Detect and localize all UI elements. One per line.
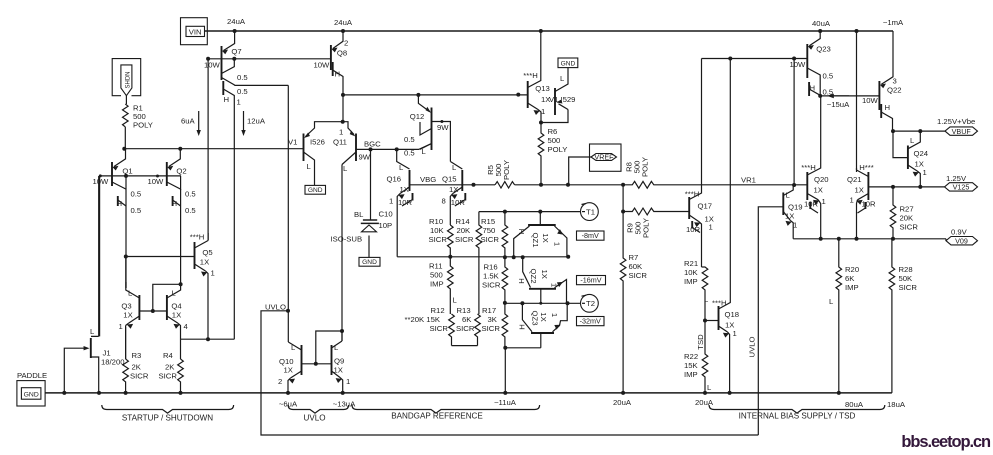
- svg-text:10W: 10W: [862, 96, 879, 105]
- wire: startup emitter row (R1 to V1 base): [124, 148, 303, 150]
- transistor Q4 (NPN 1X, diode-connected): [167, 284, 189, 339]
- wire: Q3/Q4 base row and tie to Q4 collector: [139, 310, 167, 312]
- wire: VREF tap: [569, 157, 591, 185]
- svg-text:24uA: 24uA: [334, 18, 353, 27]
- svg-text:R16: R16: [484, 263, 498, 272]
- resistor R5 500 POLY (horizontal): [495, 182, 515, 188]
- wire: row D (trim ladder bottom): [505, 347, 541, 349]
- wire: V09 row: [793, 238, 946, 240]
- svg-text:Q11: Q11: [333, 138, 347, 147]
- wire: Q5 base row: [126, 256, 195, 258]
- port VIN outer box: [181, 18, 208, 45]
- svg-text:Q4: Q4: [171, 302, 182, 311]
- wire: ~15uA line (Q23 collectors to Q22 base): [820, 95, 879, 97]
- resistor R14 20K SICR: [476, 212, 482, 314]
- wire: Q1/Q2 base row: [100, 175, 181, 177]
- svg-text:H: H: [518, 324, 527, 330]
- svg-text:VBG: VBG: [420, 175, 436, 184]
- ground GND box (I529 collector): [558, 58, 578, 68]
- svg-text:2: 2: [344, 39, 348, 48]
- annotation: 12uA arrow: [243, 111, 245, 131]
- resistor R20 6K IMP: [836, 239, 842, 393]
- resistor R12 15K SICR (**20K): [449, 314, 455, 346]
- svg-text:-32mV: -32mV: [580, 317, 601, 326]
- svg-text:ISO-SUB: ISO-SUB: [331, 235, 363, 244]
- svg-text:L: L: [291, 343, 296, 352]
- label: -32mV box: [577, 317, 605, 326]
- svg-text:QZ2: QZ2: [529, 269, 538, 284]
- wire: BGC row (Q11 base to Q12 collector): [356, 144, 432, 150]
- svg-text:1: 1: [793, 221, 797, 230]
- svg-text:L: L: [172, 289, 177, 298]
- svg-text:Q12: Q12: [410, 112, 425, 121]
- svg-text:R6: R6: [548, 127, 558, 136]
- wire: ladder bottom to ground rail: [504, 348, 506, 393]
- wire: Q17/Q18 collector top link to Q23 base: [702, 58, 808, 60]
- transistor Q9 (NPN 1X, diode tap): [332, 331, 351, 393]
- svg-text:10W: 10W: [314, 61, 331, 70]
- terminal T2: [581, 294, 599, 312]
- svg-text:**20K 15K: **20K 15K: [405, 315, 441, 324]
- svg-text:VREF: VREF: [594, 153, 614, 162]
- wire: R12/R13 bottom tie: [452, 345, 478, 347]
- wire: Q21 collector vertical (rail to Q21): [856, 31, 858, 170]
- node UVLO: [286, 309, 290, 313]
- svg-text:0.5: 0.5: [237, 87, 248, 96]
- svg-text:H: H: [810, 84, 816, 93]
- svg-text:L: L: [128, 289, 133, 298]
- svg-text:GND: GND: [362, 259, 377, 266]
- svg-text:R10: R10: [429, 217, 443, 226]
- svg-text:15K: 15K: [684, 361, 699, 370]
- zap transistor QZ3 (1X H, flipped): [518, 303, 568, 348]
- svg-text:6K: 6K: [845, 274, 855, 283]
- svg-text:SICR: SICR: [429, 235, 448, 244]
- svg-text:IMP: IMP: [430, 280, 444, 289]
- svg-text:H: H: [335, 70, 341, 79]
- wire: Q7/Q8 base row: [208, 58, 331, 60]
- svg-text:10K: 10K: [684, 268, 699, 277]
- resistor R27 20K SICR: [890, 187, 896, 240]
- svg-text:4: 4: [184, 322, 189, 331]
- svg-text:0.5: 0.5: [131, 206, 142, 215]
- wire: VREF line down to R9 row: [622, 185, 624, 212]
- wire: Q7 collector2 to UVLO branch top: [234, 84, 288, 86]
- svg-text:1X: 1X: [200, 258, 209, 267]
- svg-text:POLY: POLY: [641, 157, 650, 177]
- svg-text:J1: J1: [103, 349, 111, 358]
- svg-text:SICR: SICR: [159, 372, 178, 381]
- svg-text:6K: 6K: [462, 315, 472, 324]
- svg-text:BL: BL: [354, 210, 364, 219]
- resistor R17 3K SICR: [502, 303, 508, 348]
- resistor R6 500 POLY: [538, 123, 544, 185]
- svg-text:1: 1: [553, 242, 562, 246]
- svg-text:3: 3: [893, 77, 897, 86]
- svg-text:Q18: Q18: [725, 310, 740, 319]
- brace: INTERNAL BIAS SUPPLY / TSD: [709, 405, 885, 413]
- wire: SHDN to R1: [125, 96, 127, 104]
- svg-text:UVLO: UVLO: [748, 337, 757, 358]
- brace: BANDGAP REFERENCE: [352, 405, 540, 413]
- svg-text:20K: 20K: [457, 226, 472, 235]
- svg-text:UVLO: UVLO: [303, 414, 325, 423]
- svg-text:1X: 1X: [284, 366, 293, 375]
- svg-text:10W: 10W: [790, 60, 807, 69]
- svg-text:10R: 10R: [804, 200, 819, 209]
- svg-text:Q9: Q9: [334, 357, 344, 366]
- svg-text:Q17: Q17: [698, 202, 713, 211]
- svg-text:-16mV: -16mV: [580, 276, 601, 285]
- resistor R3 2K SICR: [125, 327, 127, 359]
- svg-text:R22: R22: [684, 352, 698, 361]
- svg-text:50K: 50K: [899, 274, 914, 283]
- svg-text:SICR: SICR: [430, 324, 449, 333]
- port VBUF flag: [945, 127, 978, 135]
- resistor R10 10K SICR: [447, 225, 453, 257]
- svg-text:750: 750: [483, 226, 496, 235]
- node: rail junction dots: [233, 29, 237, 33]
- wire: V125 row (Q21 base to flag): [868, 186, 944, 188]
- svg-text:T1: T1: [586, 208, 595, 217]
- transistor Q12 (PNP 9W dual collector): [404, 95, 450, 162]
- svg-text:L: L: [560, 74, 565, 83]
- svg-text:1X: 1X: [785, 212, 794, 221]
- svg-text:Q19: Q19: [788, 203, 803, 212]
- svg-text:1: 1: [850, 196, 854, 205]
- svg-text:R11: R11: [429, 262, 443, 271]
- svg-text:IMP: IMP: [684, 370, 698, 379]
- svg-text:GND: GND: [24, 392, 39, 399]
- svg-text:H***: H***: [859, 163, 874, 172]
- wire: Q1 base to J1 drain (left vertical): [99, 176, 101, 337]
- svg-text:SICR: SICR: [456, 324, 475, 333]
- wire: row B (Q16 emitter / R11 node): [397, 256, 568, 258]
- svg-text:SICR: SICR: [482, 281, 501, 290]
- wire: VBG row with R5: [410, 184, 496, 186]
- svg-text:60K: 60K: [629, 262, 644, 271]
- resistor R11 500 IMP: [447, 257, 453, 314]
- wire: UVLO feedback branch (down and across bottom): [261, 311, 758, 435]
- svg-text:VR1: VR1: [741, 176, 756, 185]
- svg-text:~1mA: ~1mA: [883, 18, 904, 27]
- ground GND box (V1 collector): [305, 185, 326, 194]
- transistor Q8 (PNP): [314, 31, 349, 95]
- svg-text:R21: R21: [684, 259, 698, 268]
- transistor Q19 (NPN 1X L): [783, 185, 802, 239]
- svg-text:20K: 20K: [900, 214, 915, 223]
- svg-text:10R: 10R: [398, 198, 413, 207]
- svg-text:1: 1: [541, 107, 545, 116]
- svg-text:2K: 2K: [165, 363, 175, 372]
- svg-text:12uA: 12uA: [247, 117, 266, 126]
- svg-text:Q20: Q20: [814, 175, 829, 184]
- transistor Q23 (PNP multi-collector 10W): [790, 31, 834, 97]
- svg-text:1.25V+Vbe: 1.25V+Vbe: [937, 117, 975, 126]
- svg-text:Q21: Q21: [847, 175, 862, 184]
- svg-text:10W: 10W: [204, 61, 221, 70]
- svg-text:L: L: [399, 163, 404, 172]
- transistor Q15 (NPN 8X 10R): [442, 162, 466, 226]
- svg-text:L: L: [829, 297, 834, 306]
- svg-text:~15uA: ~15uA: [827, 100, 850, 109]
- transistor Q1 (PNP multi-collector): [93, 149, 142, 288]
- transistor Q5 (NPN 1X): [190, 233, 215, 340]
- svg-text:1X: 1X: [334, 366, 343, 375]
- svg-text:1X: 1X: [172, 311, 181, 320]
- svg-text:2: 2: [278, 377, 282, 386]
- annotation: ~15uA arrow: [827, 94, 834, 99]
- svg-text:V1: V1: [288, 138, 297, 147]
- transistor Q7 (PNP multi-collector): [204, 31, 248, 339]
- svg-text:10P: 10P: [379, 221, 393, 230]
- svg-text:1: 1: [923, 168, 927, 177]
- svg-text:0.5: 0.5: [823, 72, 834, 81]
- svg-text:H: H: [224, 95, 230, 104]
- svg-text:QZ3: QZ3: [531, 311, 540, 326]
- svg-text:10W: 10W: [148, 177, 165, 186]
- svg-text:20uA: 20uA: [695, 398, 714, 407]
- svg-text:SICR: SICR: [130, 372, 149, 381]
- transistor V1 (PNP I526): [288, 122, 343, 186]
- svg-text:1: 1: [119, 322, 123, 331]
- svg-text:VIN: VIN: [189, 27, 202, 36]
- svg-text:POLY: POLY: [548, 145, 568, 154]
- svg-text:I526: I526: [310, 138, 325, 147]
- svg-text:H: H: [117, 199, 123, 208]
- svg-text:R4: R4: [163, 351, 174, 360]
- svg-text:Q13: Q13: [535, 84, 550, 93]
- transistor Q3 (NPN 1X): [119, 257, 140, 360]
- svg-text:9W: 9W: [359, 153, 371, 162]
- svg-text:10W: 10W: [93, 177, 110, 186]
- svg-text:SICR: SICR: [481, 235, 500, 244]
- svg-text:C10: C10: [379, 210, 393, 219]
- svg-text:***H: ***H: [801, 163, 816, 172]
- svg-text:R7: R7: [629, 253, 639, 262]
- svg-text:SICR: SICR: [482, 324, 501, 333]
- svg-text:8: 8: [442, 197, 446, 206]
- wire: row C (T2 row): [505, 302, 581, 304]
- svg-text:500: 500: [548, 136, 561, 145]
- brace: STARTUP / SHUTDOWN: [102, 405, 234, 413]
- svg-text:0.9V: 0.9V: [951, 228, 968, 237]
- svg-text:L: L: [422, 147, 427, 156]
- svg-text:BANDGAP REFERENCE: BANDGAP REFERENCE: [391, 412, 483, 421]
- svg-text:0.5: 0.5: [131, 190, 142, 199]
- port SHDN flag: [121, 65, 132, 96]
- transistor Q11 (PNP 9W): [333, 122, 371, 173]
- svg-text:6uA: 6uA: [181, 117, 196, 126]
- svg-text:10R: 10R: [451, 198, 466, 207]
- svg-text:0.5: 0.5: [185, 190, 196, 199]
- svg-text:INTERNAL BIAS SUPPLY / TSD: INTERNAL BIAS SUPPLY / TSD: [739, 412, 856, 421]
- svg-text:1X: 1X: [540, 269, 549, 278]
- svg-text:STARTUP / SHUTDOWN: STARTUP / SHUTDOWN: [122, 414, 213, 423]
- transistor Q16 (NPN 1X 10R): [387, 149, 413, 256]
- resistor R28 50K SICR: [889, 239, 895, 393]
- label: -16mV box: [577, 276, 606, 285]
- port PADDLE GND inner box: [21, 388, 41, 400]
- svg-text:***H: ***H: [712, 299, 727, 308]
- port VREF flag and outer box: [590, 144, 622, 171]
- svg-text:SICR: SICR: [455, 235, 474, 244]
- resistor R8 500 POLY (horizontal on VR1 line): [623, 181, 807, 188]
- svg-text:Q7: Q7: [231, 47, 241, 56]
- svg-text:Q15: Q15: [442, 175, 457, 184]
- svg-text:R20: R20: [845, 265, 859, 274]
- svg-text:3K: 3K: [488, 315, 498, 324]
- svg-text:1X: 1X: [400, 185, 409, 194]
- svg-text:1: 1: [237, 98, 241, 107]
- terminal T1: [581, 203, 599, 221]
- annotation: 6uA arrow left: [198, 111, 200, 131]
- transistor Q18 (NPN 1X L***H): [704, 59, 739, 393]
- svg-text:20uA: 20uA: [613, 398, 632, 407]
- svg-text:1X: 1X: [814, 186, 823, 195]
- wire: ground rail: [45, 392, 892, 394]
- svg-text:10R: 10R: [862, 200, 877, 209]
- resistor R15 750 SICR: [502, 212, 508, 258]
- svg-text:1X: 1X: [541, 233, 550, 242]
- wire: mid rail y95 (Q8 collector to Q13 base): [343, 94, 528, 96]
- resistor R16 1.5K SICR: [502, 257, 508, 303]
- transistor Q2 (PNP multi-collector): [148, 149, 196, 285]
- svg-text:SICR: SICR: [900, 223, 919, 232]
- svg-text:POLY: POLY: [642, 218, 651, 238]
- transistor Q21 (NPN 1X 10R H***, mirrored): [847, 163, 876, 239]
- transistor J1 (JFET 18/200): [64, 176, 124, 393]
- svg-text:18uA: 18uA: [887, 400, 906, 409]
- svg-text:Q24: Q24: [914, 149, 929, 158]
- svg-text:IMP: IMP: [845, 283, 859, 292]
- resistor R1 500 POLY: [123, 104, 129, 127]
- svg-text:QZ1: QZ1: [531, 233, 540, 248]
- svg-text:1: 1: [550, 313, 559, 317]
- svg-text:500: 500: [430, 271, 443, 280]
- svg-text:Q5: Q5: [202, 248, 212, 257]
- svg-text:UVLO: UVLO: [265, 303, 286, 312]
- svg-text:L: L: [307, 162, 312, 171]
- resistor R4 2K SICR: [180, 339, 182, 359]
- ground GND box (ISO-SUB): [359, 257, 380, 266]
- wire: VBUF row: [893, 130, 946, 132]
- wire: top supply rail: [204, 30, 893, 32]
- svg-text:0.5: 0.5: [404, 149, 415, 158]
- svg-text:SICR: SICR: [629, 271, 648, 280]
- svg-text:L: L: [343, 164, 348, 173]
- brace: UVLO: [288, 405, 349, 413]
- svg-text:T2: T2: [586, 299, 595, 308]
- wire: Q23 base down to VR1 row: [793, 59, 795, 186]
- transistor Q22 (PNP 10W): [862, 31, 902, 131]
- wire: Q11/Q9 collector vertical: [341, 165, 343, 342]
- svg-text:H: H: [172, 199, 178, 208]
- svg-text:40uA: 40uA: [812, 19, 831, 28]
- svg-text:POLY: POLY: [133, 121, 153, 130]
- svg-text:L: L: [90, 327, 95, 336]
- svg-text:1: 1: [389, 197, 393, 206]
- svg-text:SHDN: SHDN: [125, 71, 131, 88]
- zap transistor QZ2 (1X H, flipped): [517, 257, 567, 303]
- svg-text:R28: R28: [899, 265, 913, 274]
- svg-text:0.5: 0.5: [237, 73, 248, 82]
- svg-text:V1: V1: [549, 95, 558, 104]
- port V125 flag: [945, 183, 978, 191]
- svg-text:R14: R14: [456, 217, 471, 226]
- transistor Q10 (NPN 1X): [278, 342, 302, 393]
- svg-text:Q1: Q1: [122, 167, 132, 176]
- wire: UVLO sense line (Q7 C2 down to Q10 collector): [287, 85, 289, 342]
- svg-text:1: 1: [346, 377, 350, 386]
- resistor R7 60K SICR: [620, 212, 626, 393]
- svg-text:10K: 10K: [430, 226, 445, 235]
- svg-text:1X: 1X: [123, 311, 132, 320]
- svg-text:Q22: Q22: [887, 86, 902, 95]
- svg-text:H: H: [517, 278, 526, 284]
- svg-text:Q3: Q3: [121, 302, 131, 311]
- svg-text:R3: R3: [132, 351, 142, 360]
- svg-text:BGC: BGC: [364, 140, 381, 149]
- svg-text:PADDLE: PADDLE: [17, 371, 47, 380]
- svg-text:IMP: IMP: [684, 277, 698, 286]
- svg-text:1: 1: [733, 329, 737, 338]
- svg-text:H: H: [517, 229, 526, 235]
- node: ground rail dots: [62, 391, 66, 395]
- svg-text:10R: 10R: [686, 225, 701, 234]
- capacitor C10 10P with iso diode: [331, 149, 393, 257]
- svg-text:1: 1: [339, 128, 343, 137]
- svg-text:0.5: 0.5: [185, 206, 196, 215]
- svg-text:L: L: [453, 296, 458, 305]
- svg-text:R13: R13: [457, 306, 471, 315]
- svg-text:~11uA: ~11uA: [494, 398, 517, 407]
- transistor I529 (V1 pair, collector grounded): [541, 68, 575, 123]
- svg-text:R17: R17: [482, 306, 496, 315]
- zap transistor QZ1 (1X H): [514, 212, 567, 258]
- wire: Q7 base down to Q5 collector: [207, 59, 209, 241]
- svg-text:1: 1: [709, 223, 713, 232]
- svg-text:9W: 9W: [437, 123, 449, 132]
- svg-text:18/200: 18/200: [101, 358, 125, 367]
- svg-text:1: 1: [822, 197, 826, 206]
- resistor R22 15K IMP: [702, 321, 708, 393]
- svg-text:GND: GND: [561, 60, 576, 67]
- svg-text:1X: 1X: [855, 186, 864, 195]
- svg-text:1X: 1X: [449, 185, 458, 194]
- resistor R9 500 POLY (horizontal): [623, 208, 689, 215]
- svg-text:80uA: 80uA: [845, 400, 864, 409]
- svg-text:***H: ***H: [190, 233, 205, 242]
- transistor Q24 (NPN 1X): [893, 131, 929, 187]
- transistor Q20 (NPN 1X 10R ***H): [801, 96, 828, 239]
- svg-text:R12: R12: [431, 306, 445, 315]
- wire: R1 to startup row: [124, 127, 126, 149]
- svg-text:L: L: [704, 295, 709, 304]
- svg-text:***H: ***H: [685, 190, 700, 199]
- svg-text:POLY: POLY: [502, 160, 511, 180]
- port V09 flag: [946, 237, 978, 245]
- svg-text:I529: I529: [561, 95, 576, 104]
- svg-text:bbs.eetop.cn: bbs.eetop.cn: [901, 433, 991, 451]
- port SHDN outer box: [112, 59, 141, 96]
- svg-text:L: L: [910, 136, 915, 145]
- svg-text:L: L: [707, 383, 712, 392]
- svg-text:R27: R27: [900, 205, 914, 214]
- svg-text:R15: R15: [481, 217, 495, 226]
- svg-text:2K: 2K: [132, 363, 142, 372]
- svg-text:SICR: SICR: [899, 283, 918, 292]
